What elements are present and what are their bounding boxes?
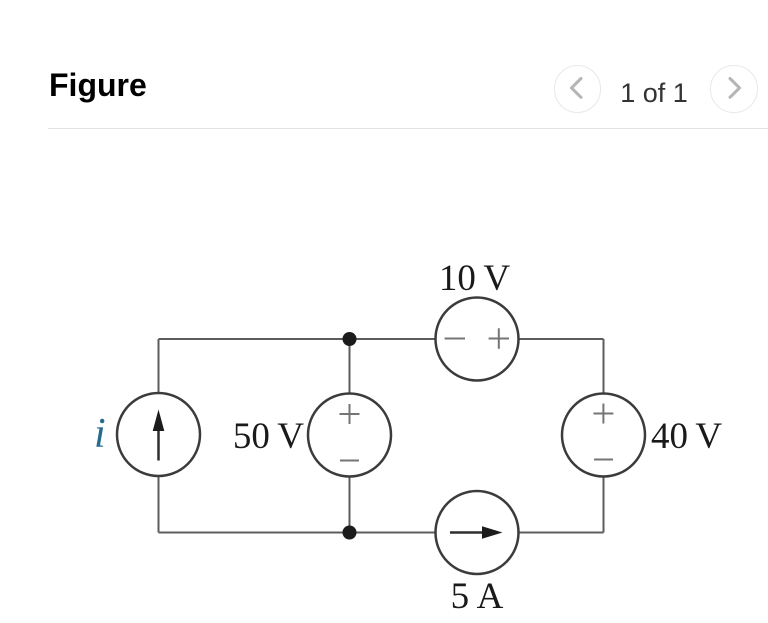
wire middle branch xyxy=(349,339,351,533)
wire top rail xyxy=(159,338,604,340)
svg-text:i: i xyxy=(94,411,106,457)
label 40 V xyxy=(651,416,722,457)
current source i (left branch) xyxy=(117,393,200,476)
prev-page button (left chevron) xyxy=(554,65,602,113)
current source 5 A (bottom rail) xyxy=(436,491,519,574)
page indicator "1 of 1" xyxy=(604,78,704,109)
next-page button (right chevron) xyxy=(710,65,758,113)
svg-text:10 V: 10 V xyxy=(439,258,510,299)
label i xyxy=(94,411,106,457)
voltage source 40 V (right branch) xyxy=(562,394,645,477)
node junction top xyxy=(343,332,357,346)
header title "Figure" xyxy=(49,67,147,104)
label 50 V xyxy=(233,416,304,457)
svg-text:5 A: 5 A xyxy=(451,576,504,617)
svg-text:50 V: 50 V xyxy=(233,416,304,457)
wire left branch xyxy=(158,339,160,533)
horizontal divider under header xyxy=(48,128,768,129)
voltage source 50 V (middle branch) xyxy=(308,394,391,477)
voltage source 10 V (top rail) xyxy=(436,298,519,381)
node junction bottom xyxy=(343,526,357,540)
wire bottom rail xyxy=(159,532,604,534)
svg-text:40 V: 40 V xyxy=(651,416,722,457)
label 10 V xyxy=(439,258,510,299)
label 5 A xyxy=(451,576,504,617)
wire right branch xyxy=(603,339,605,533)
